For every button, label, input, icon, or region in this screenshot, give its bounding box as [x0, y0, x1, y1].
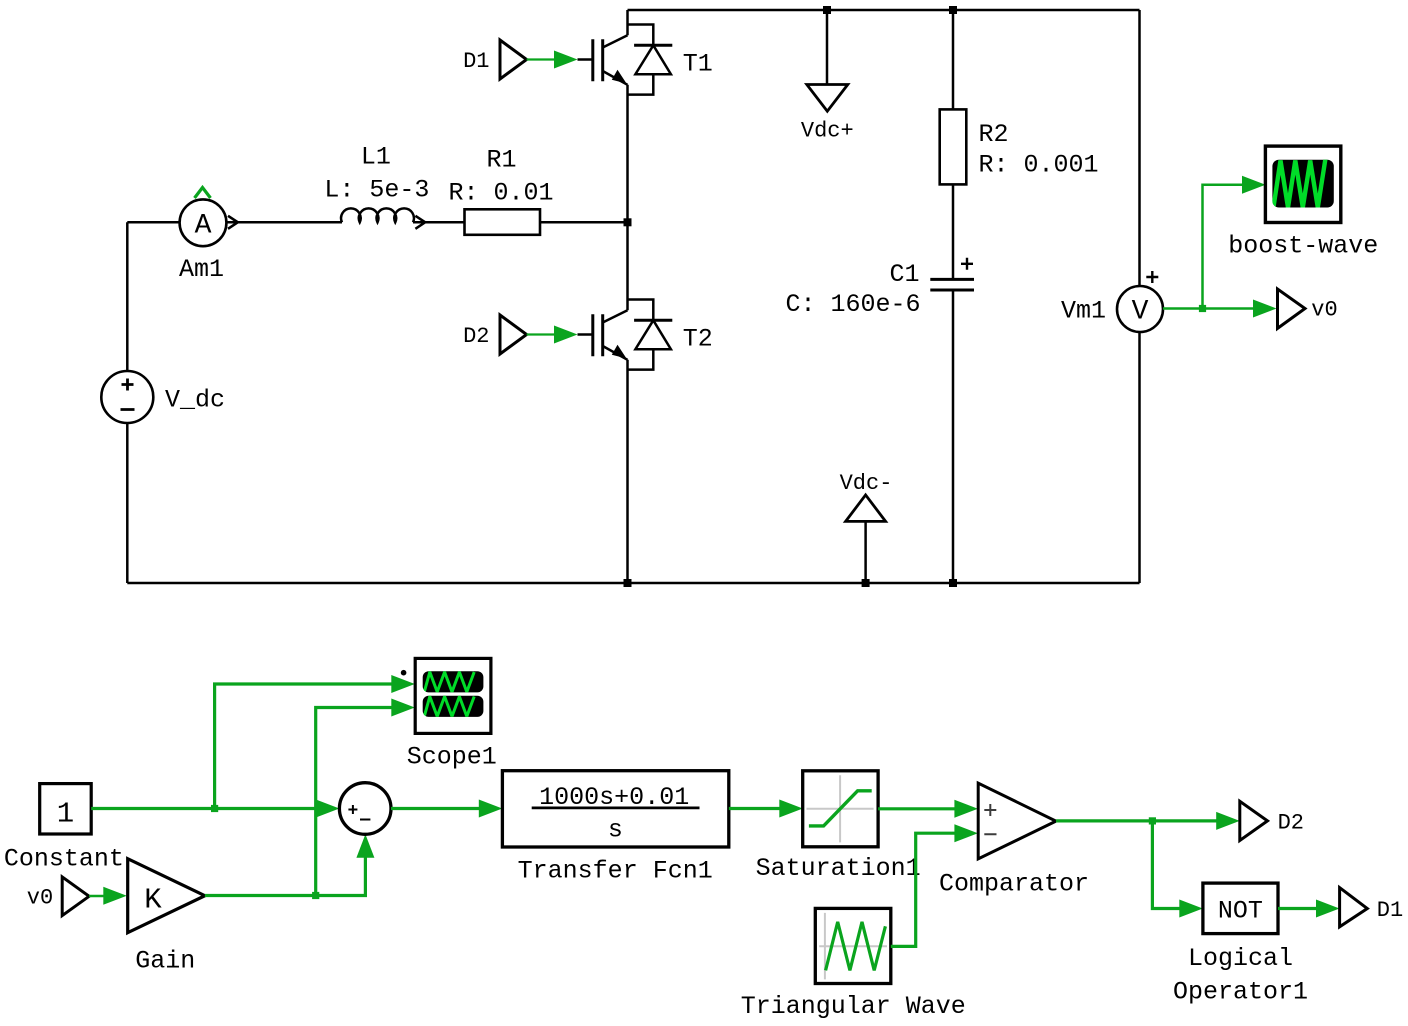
wire top bus — [628, 9, 1140, 12]
gain triangle — [128, 859, 205, 933]
gate wire black — [578, 58, 593, 61]
junction bottom C1 — [949, 579, 957, 587]
gate wire black — [578, 333, 593, 336]
wire summer to transfer fcn — [391, 807, 481, 810]
wire comparator output — [1056, 819, 1218, 822]
svg-text:D1: D1 — [1377, 898, 1403, 923]
wire junction to v0 — [1203, 307, 1256, 310]
junction bottom T2 — [624, 579, 632, 587]
emitter arrowhead — [612, 70, 627, 84]
svg-text:Vdc+: Vdc+ — [801, 119, 854, 144]
svg-text:Triangular Wave: Triangular Wave — [741, 992, 966, 1021]
gate bars — [593, 39, 603, 81]
wire inductor to R1 — [413, 221, 465, 224]
wire constant to summer — [91, 807, 318, 810]
svg-text:v0: v0 — [1311, 298, 1337, 323]
port v0 in — [62, 877, 89, 916]
svg-text:R: 0.01: R: 0.01 — [448, 179, 553, 208]
svg-text:L: 5e-3: L: 5e-3 — [324, 176, 429, 205]
IGBT T1 — [463, 10, 713, 222]
terminal Vdc- — [840, 471, 893, 583]
collector path — [603, 222, 628, 322]
svg-text:C1: C1 — [889, 260, 919, 289]
svg-text:Constant: Constant — [4, 844, 124, 873]
svg-text:Vdc-: Vdc- — [840, 471, 893, 496]
emitter arrowhead — [612, 345, 627, 359]
junction comparator net — [1149, 817, 1156, 824]
junction constant net — [211, 805, 218, 812]
wire saturation to comparator — [878, 807, 956, 810]
capacitor C1 — [785, 258, 974, 583]
IGBT T2 — [463, 222, 713, 583]
gate wire green D1 — [527, 58, 556, 60]
svg-text:Comparator: Comparator — [939, 869, 1089, 898]
scope Scope1 — [401, 658, 497, 771]
svg-text:Vm1: Vm1 — [1061, 297, 1106, 326]
triangular wave block — [741, 908, 966, 1020]
wire gain output — [205, 856, 366, 896]
port D1 — [500, 40, 527, 79]
junction top bus right — [949, 6, 957, 14]
resistor R1 — [465, 209, 541, 235]
svg-text:Operator1: Operator1 — [1173, 978, 1308, 1007]
arrow into comparator plus — [954, 800, 978, 818]
svg-text:T2: T2 — [683, 325, 713, 354]
diode triangle — [635, 45, 671, 74]
collector path — [603, 10, 628, 48]
green caret on Am1 — [195, 188, 211, 199]
wire right bus upper — [1138, 10, 1141, 287]
arrow into boost-wave — [1242, 176, 1266, 194]
svg-text:Scope1: Scope1 — [407, 743, 497, 772]
arrow into comparator minus — [954, 824, 978, 842]
wire ammeter to inductor — [227, 221, 342, 224]
POWER CIRCUIT — [127, 10, 1139, 583]
transfer fcn block — [502, 771, 728, 886]
junction gain net — [312, 892, 319, 899]
svg-text:D1: D1 — [463, 49, 489, 74]
svg-text:1: 1 — [57, 797, 74, 830]
wire Vm1 out — [1163, 307, 1203, 310]
constant block — [4, 784, 124, 874]
wire triangular wave to comparator minus — [891, 833, 956, 946]
diode triangle — [635, 320, 671, 349]
port D2 out — [1240, 801, 1268, 840]
port v0 out — [1278, 289, 1306, 328]
arrow into v0 port — [1253, 300, 1277, 318]
current direction arrow — [228, 216, 238, 229]
svg-text:D2: D2 — [1278, 810, 1304, 835]
port D1 out — [1340, 888, 1368, 927]
inductor L1 — [341, 208, 425, 228]
svg-text:R: 0.001: R: 0.001 — [979, 151, 1099, 180]
terminal Vdc+ — [801, 10, 854, 144]
arrow into NOT — [1179, 900, 1203, 918]
wire right bus lower — [1138, 332, 1141, 584]
gate bars — [593, 314, 603, 356]
svg-text:K: K — [144, 884, 162, 917]
junction green Vm1 net — [1199, 305, 1206, 312]
diode cathode bar — [634, 44, 672, 47]
wire up to scope — [1203, 185, 1245, 309]
voltmeter Vm1 — [1061, 271, 1163, 332]
summer circle — [339, 783, 391, 835]
svg-text:v0: v0 — [27, 885, 53, 910]
svg-text:R1: R1 — [486, 146, 516, 175]
wire down to NOT — [1152, 821, 1181, 909]
wire up to scope input 1 — [215, 684, 394, 809]
scope boost-wave — [1228, 146, 1378, 260]
svg-text:boost-wave: boost-wave — [1228, 231, 1378, 260]
svg-text:T1: T1 — [683, 50, 713, 79]
junction top bus left — [823, 6, 831, 14]
svg-text:L1: L1 — [361, 143, 391, 172]
wire gain net up to scope input 2 — [316, 708, 394, 896]
svg-text:V: V — [1132, 297, 1149, 328]
arrow scope input 1 — [391, 675, 415, 693]
svg-text:D2: D2 — [463, 324, 489, 349]
wire V_dc to ammeter — [126, 222, 129, 371]
svg-text:C: 160e-6: C: 160e-6 — [785, 290, 920, 319]
arrow into gain — [103, 887, 127, 905]
svg-text:s: s — [608, 816, 623, 845]
arrow into transfer fcn — [479, 800, 503, 818]
arrow into saturation — [779, 800, 803, 818]
arrow into summer bottom — [356, 834, 374, 858]
green net from Vm1 — [1163, 185, 1255, 309]
wire NOT to D1 — [1278, 907, 1319, 910]
arrow into summer left — [316, 800, 340, 818]
junction bottom Vdc- — [862, 579, 870, 587]
wire ammeter left — [127, 221, 179, 224]
saturation block — [756, 771, 921, 883]
svg-text:Saturation1: Saturation1 — [756, 854, 921, 883]
svg-text:Transfer Fcn1: Transfer Fcn1 — [518, 856, 713, 885]
svg-text:A: A — [195, 210, 212, 241]
resistor R2 — [940, 10, 1099, 279]
wire bottom bus — [127, 582, 1139, 585]
NOT block Logical Operator1 — [1173, 883, 1308, 1007]
diode connector bottom — [628, 349, 654, 369]
svg-text:Am1: Am1 — [179, 255, 224, 284]
svg-text:R2: R2 — [979, 120, 1009, 149]
wire V_dc to bottom bus — [126, 423, 129, 583]
svg-text:Logical: Logical — [1188, 944, 1293, 973]
wire transfer fcn to saturation — [729, 807, 781, 810]
wire R1 to node A — [540, 221, 628, 224]
comparator triangle — [939, 783, 1089, 898]
ammeter Am1 — [179, 188, 238, 285]
node A junction — [624, 218, 632, 226]
diode connector bottom — [628, 74, 654, 94]
arrow into port D2 — [1216, 812, 1240, 830]
emitter path — [603, 71, 628, 222]
svg-text:V_dc: V_dc — [165, 386, 225, 415]
wire v0 to gain — [89, 895, 106, 898]
arrow into port D1 — [1316, 900, 1340, 918]
voltage source V_dc — [101, 371, 225, 423]
diode connector top — [628, 25, 654, 46]
diode cathode bar — [634, 319, 672, 322]
diode connector top — [628, 300, 654, 321]
svg-text:NOT: NOT — [1218, 897, 1263, 926]
port D2 — [500, 315, 527, 354]
arrow scope input 2 — [391, 699, 415, 717]
gate wire green D2 — [527, 333, 556, 335]
svg-text:Gain: Gain — [135, 946, 195, 975]
emitter path — [603, 346, 628, 583]
